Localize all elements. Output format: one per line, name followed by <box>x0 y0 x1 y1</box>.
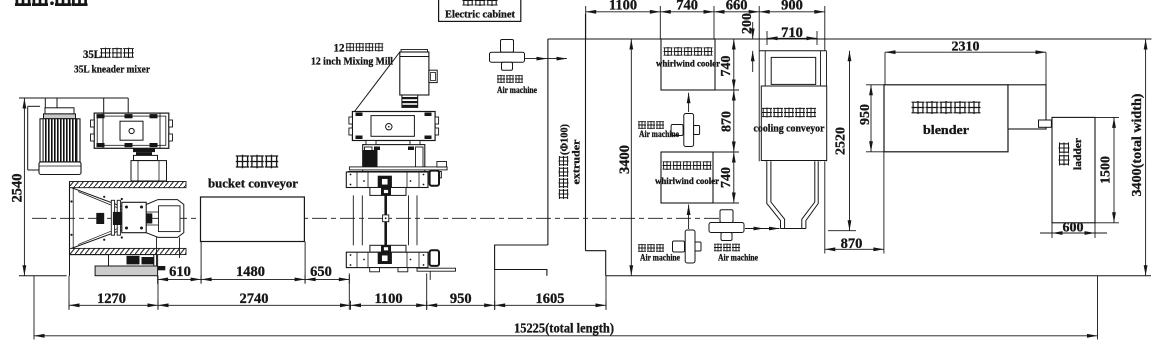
svg-text:900: 900 <box>781 0 803 13</box>
svg-text:cooling conveyor: cooling conveyor <box>754 124 826 135</box>
svg-text:200: 200 <box>740 13 755 34</box>
svg-text:950: 950 <box>858 104 873 125</box>
svg-text:Electric cabinet: Electric cabinet <box>445 10 516 21</box>
svg-text:2520: 2520 <box>834 127 849 155</box>
svg-text:Air machine: Air machine <box>497 85 537 95</box>
svg-text:1605: 1605 <box>536 291 565 307</box>
svg-text:600: 600 <box>1063 221 1084 236</box>
svg-text:650: 650 <box>310 264 332 280</box>
svg-text:whirlwind cooler: whirlwind cooler <box>655 177 720 187</box>
svg-text:2540: 2540 <box>10 174 26 203</box>
svg-text:Air machine: Air machine <box>718 253 758 263</box>
svg-text:1500: 1500 <box>1099 156 1114 184</box>
svg-text:extruder: extruder <box>572 139 583 184</box>
svg-text:blender: blender <box>923 122 969 137</box>
svg-text:3400: 3400 <box>617 145 633 174</box>
svg-text:12: 12 <box>334 43 345 55</box>
svg-text:ladder: ladder <box>1073 137 1084 170</box>
svg-text:710: 710 <box>781 25 803 41</box>
svg-text:1270: 1270 <box>97 291 126 307</box>
svg-text:(Φ100): (Φ100) <box>560 124 571 155</box>
svg-text:35L kneader mixer: 35L kneader mixer <box>74 64 150 76</box>
svg-text:870: 870 <box>720 111 735 132</box>
svg-text:1100: 1100 <box>609 0 637 13</box>
svg-text:950: 950 <box>450 291 472 307</box>
svg-text:bucket conveyor: bucket conveyor <box>208 176 298 191</box>
svg-text:610: 610 <box>169 264 191 280</box>
svg-text:whirlwind cooler: whirlwind cooler <box>656 60 721 70</box>
svg-text:15225(total length): 15225(total length) <box>514 320 614 335</box>
svg-text:35L: 35L <box>83 49 101 61</box>
svg-text:740: 740 <box>719 56 734 77</box>
svg-text:740: 740 <box>676 0 698 13</box>
svg-text:740: 740 <box>719 167 734 188</box>
svg-text:660: 660 <box>726 0 748 13</box>
svg-text:2740: 2740 <box>240 291 269 307</box>
svg-text:3400(total width): 3400(total width) <box>1129 94 1144 197</box>
svg-text:Air machine: Air machine <box>640 253 680 263</box>
svg-text:1480: 1480 <box>236 264 265 280</box>
svg-text:1100: 1100 <box>374 291 402 307</box>
svg-text:870: 870 <box>841 236 863 252</box>
svg-text:12 inch Mixing Mill: 12 inch Mixing Mill <box>311 56 393 68</box>
svg-text:Air machine: Air machine <box>639 129 679 139</box>
svg-text:2310: 2310 <box>952 39 980 54</box>
